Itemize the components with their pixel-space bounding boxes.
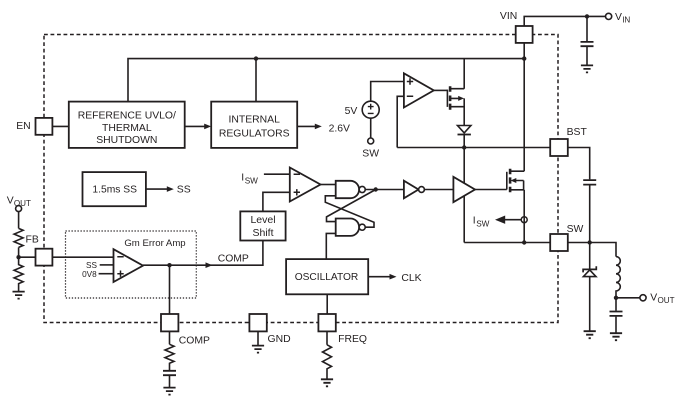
wire latch cross-couple A (N1 out to N2 input) (327, 190, 376, 222)
svg-text:1.5ms SS: 1.5ms SS (92, 184, 137, 195)
wire OSCILLATOR clock to N2 input (326, 233, 335, 259)
node junction VIN terminal / input cap (585, 14, 589, 18)
block OSCILLATOR (286, 259, 368, 294)
op-amp U1 BST regulator amp (404, 73, 434, 107)
node junction VOUT / COUT (614, 296, 618, 300)
node junction VIN rail / VIN pin (522, 56, 526, 60)
IC boundary dashed box (44, 35, 558, 323)
node junction N1 output (374, 187, 378, 191)
pin FB (36, 249, 53, 266)
svg-text:V: V (615, 12, 622, 23)
comparator PWM (290, 168, 321, 202)
wire 5V source to SW terminal (370, 118, 372, 138)
pin VIN (516, 26, 533, 43)
pin FREQ (318, 314, 335, 331)
svg-text:SS: SS (86, 261, 97, 270)
ground for RFREQ (321, 379, 333, 386)
wire VOUT node to terminal (616, 297, 640, 299)
wire INTERNAL REGULATORS top supply (255, 59, 257, 102)
svg-text:Gm Error Amp: Gm Error Amp (124, 238, 185, 249)
svg-text:5V: 5V (345, 106, 358, 117)
terminal VOUT output circle (640, 295, 646, 301)
wire COMP from error amp to Level Shift (143, 241, 263, 266)
svg-text:BST: BST (567, 127, 588, 138)
svg-text:OUT: OUT (658, 296, 675, 305)
transistor Q1 BST switch (446, 90, 448, 107)
svg-text:SW: SW (362, 149, 379, 160)
pin COMP (161, 314, 178, 331)
node junction BST rail / diode / driver supply (462, 145, 466, 149)
node junction SW / CBST / D2 (588, 240, 592, 244)
wire BST pin to bootstrap cap (568, 148, 590, 180)
svg-text:CLK: CLK (401, 273, 421, 284)
svg-text:FREQ: FREQ (338, 334, 367, 345)
wire ISW label to PWM comparator minus input (264, 173, 290, 175)
wire SS input to error amp (100, 264, 114, 266)
block INTERNAL REGULATORS (211, 102, 297, 148)
pin BST (550, 139, 568, 156)
block 1.5ms SS soft start (83, 172, 146, 206)
driver buffer (453, 177, 475, 202)
svg-text:V: V (7, 195, 14, 206)
wire Q2 source to SW rail (523, 190, 525, 243)
wire VOUT terminal to R1 (18, 211, 20, 228)
ground for feedback divider (13, 292, 25, 299)
ground for COUT (610, 333, 622, 340)
terminal VIN output circle (606, 13, 612, 19)
capacitor CBST bootstrap (583, 180, 596, 185)
wire R1 to FB node (18, 247, 20, 257)
svg-text:REFERENCE UVLO/: REFERENCE UVLO/ (78, 111, 176, 122)
wire EN pin to REFERENCE box (52, 125, 68, 127)
voltage source 5V (362, 101, 379, 118)
wire OSCILLATOR CLK output arrow (368, 276, 390, 278)
svg-text:OSCILLATOR: OSCILLATOR (295, 272, 359, 283)
pin GND (249, 314, 266, 331)
ground for CIN (581, 65, 593, 72)
resistor RFREQ frequency set (323, 345, 332, 379)
transistor Q2 power switch (506, 172, 508, 190)
ground for compensation network (163, 388, 175, 395)
Gm error amp dotted box (66, 231, 197, 298)
NAND gate N2 (336, 219, 359, 236)
svg-text:SHUTDOWN: SHUTDOWN (96, 135, 157, 146)
svg-text:FB: FB (26, 235, 39, 246)
wire SW pin to inductor (568, 243, 616, 257)
wire OSCILLATOR to FREQ pin (326, 294, 328, 314)
block Level Shift (240, 211, 285, 240)
resistor R1 feedback top (14, 228, 23, 247)
wire N1 output to inverter (365, 189, 404, 191)
inductor L1 (616, 257, 620, 298)
inverter gate (404, 181, 419, 199)
wire SW rail to SW pin (464, 242, 550, 244)
svg-text:OUT: OUT (14, 199, 31, 208)
svg-text:VIN: VIN (500, 11, 517, 22)
wire inverter to driver (424, 189, 453, 191)
svg-text:V: V (650, 292, 657, 303)
wire FB node to FB pin (19, 256, 36, 258)
wire driver to Q2 gate (475, 189, 507, 191)
svg-text:COMP: COMP (218, 253, 249, 264)
node junction FB divider (16, 255, 20, 259)
wire FREQ pin to RFREQ (326, 332, 328, 345)
wire BST rail to BST pin (397, 147, 550, 149)
wire 5V source to op-amp + input (371, 82, 404, 102)
svg-text:SW: SW (245, 177, 258, 186)
terminal SW of 5V source (368, 138, 374, 144)
wire GND pin to ground (257, 332, 259, 346)
svg-text:SW: SW (567, 224, 584, 235)
wire top VIN rail with corner to REFERENCE box (128, 59, 524, 102)
terminal VOUT feedback divider top-left (16, 206, 22, 212)
svg-text:REGULATORS: REGULATORS (219, 128, 290, 139)
capacitor CIN input cap (586, 16, 588, 41)
svg-text:IN: IN (622, 15, 630, 24)
pin SW (550, 234, 568, 251)
NAND gate N1 (336, 181, 359, 198)
svg-text:0V8: 0V8 (82, 270, 97, 279)
svg-text:GND: GND (268, 334, 291, 345)
svg-text:THERMAL: THERMAL (102, 123, 152, 134)
capacitor CCOMP compensation (163, 371, 176, 375)
wire REFERENCE to INTERNAL REGULATORS with arrow (185, 125, 205, 127)
wire COMP node to COMP pin (169, 265, 171, 314)
svg-text:SW: SW (476, 220, 489, 229)
wire op-amp minus feedback to BST rail (397, 96, 404, 147)
svg-text:EN: EN (16, 121, 30, 132)
svg-text:INTERNAL: INTERNAL (229, 115, 281, 126)
svg-text:COMP: COMP (179, 335, 210, 346)
resistor RCOMP compensation (165, 344, 174, 370)
node junction on VIN rail above INTERNAL REGULATORS (254, 56, 258, 60)
wire FB pin to error amp minus input (52, 256, 113, 258)
op-amp Gm error amplifier (114, 249, 144, 282)
wire Q2 drain to VIN rail (523, 59, 525, 172)
ground for GND pin (252, 346, 264, 353)
wire ISW sense arrow (504, 219, 521, 221)
svg-text:SS: SS (177, 184, 191, 195)
svg-text:2.6V: 2.6V (329, 124, 350, 135)
wire driver supply rail BST to SW (463, 148, 465, 243)
svg-text:Shift: Shift (252, 227, 273, 239)
arrow on COMP wire (206, 262, 213, 268)
diode D2 schottky freewheel (589, 243, 591, 270)
ground for D2 (584, 331, 596, 338)
pin EN (36, 118, 53, 135)
wire op-amp output to Q1 gate (434, 89, 448, 91)
current sense tap circle on Q2 source (521, 217, 527, 223)
wire INTERNAL REGULATORS to 2.6V output arrow (297, 125, 315, 127)
wire 0V8 input to error amp plus (99, 273, 114, 275)
wire PWM comparator to NAND N1 (321, 184, 336, 186)
diode D1 BST diode (458, 126, 471, 133)
wire COMP pin to compensation network (169, 332, 171, 345)
wire VIN pin to VIN terminal (524, 16, 605, 58)
wire latch cross-couple B (N2 out to N1 input) (325, 196, 374, 227)
node junction Q2 source on SW rail (522, 240, 526, 244)
wire 1.5ms SS box to SS arrow (146, 188, 167, 190)
wire Level Shift to PWM comparator plus input (263, 192, 290, 211)
node junction COMP (167, 263, 171, 267)
resistor R2 feedback bottom (14, 257, 23, 291)
block REFERENCE UVLO THERMAL SHUTDOWN (69, 102, 185, 148)
svg-text:Level: Level (250, 214, 275, 226)
capacitor COUT output cap (615, 298, 617, 311)
